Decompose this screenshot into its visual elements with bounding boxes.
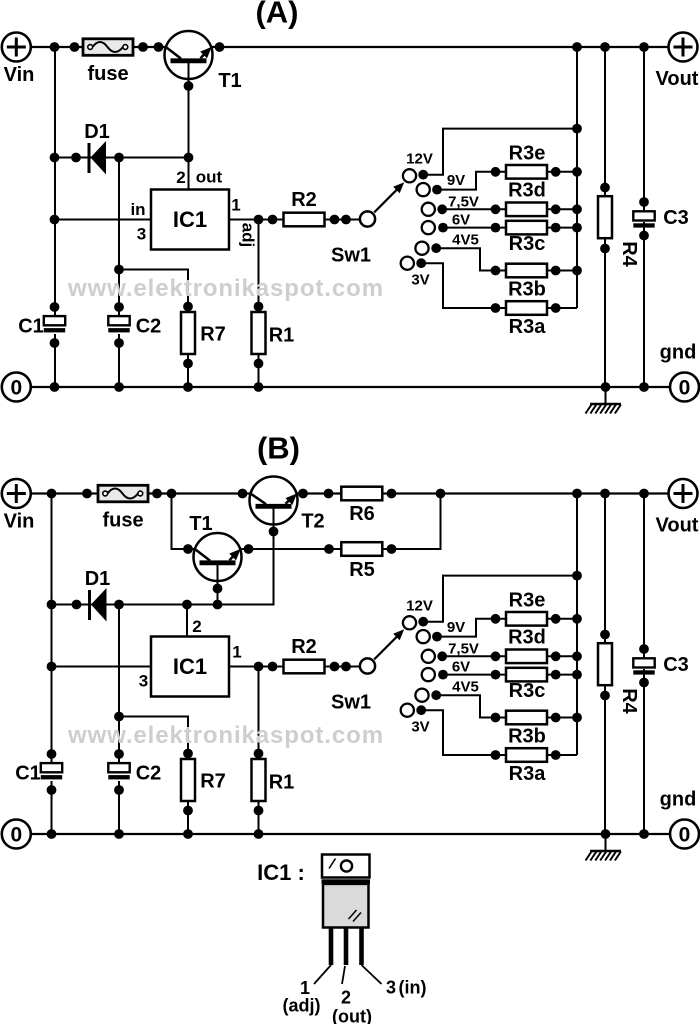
wire B left rail: [51, 494, 53, 765]
junction dot C2 B top: [114, 749, 124, 759]
contact 3V: [401, 257, 414, 270]
junction dot R4 top: [600, 183, 610, 193]
contact 12V: [403, 169, 416, 182]
resistor R1: [252, 312, 266, 354]
svg-text:12V: 12V: [406, 151, 433, 168]
svg-text:2: 2: [192, 617, 201, 636]
svg-text:6V: 6V: [452, 212, 470, 229]
junction dot bottom C3 B: [639, 829, 649, 839]
svg-text:3: 3: [139, 672, 148, 691]
svg-text:Sw1: Sw1: [331, 245, 371, 267]
junction dot B after fuse 1: [152, 489, 162, 499]
svg-text:gnd: gnd: [660, 342, 697, 364]
svg-text:7,5V: 7,5V: [448, 641, 479, 658]
wire bottom rail B: [31, 833, 669, 835]
diode D1: [88, 143, 91, 173]
svg-text:T1: T1: [218, 70, 241, 92]
junction dot R3e B bus: [572, 614, 582, 624]
svg-text:C2: C2: [136, 763, 162, 785]
junction dot C2 bottom: [114, 338, 124, 348]
switch Sw1 B wiper arrow: [374, 634, 399, 659]
capacitor C3 B: [633, 658, 654, 667]
wire 12V to bus: [423, 129, 577, 175]
wire in row B: [52, 666, 152, 668]
contact 6V: [422, 221, 435, 234]
junction dot rail-left rail: [50, 42, 60, 52]
junction dot B top of R3 bus: [572, 489, 582, 499]
svg-text:C3: C3: [663, 207, 689, 229]
junction dot bottom C2: [114, 382, 124, 392]
junction dot R3d left: [491, 204, 501, 214]
wire C3 B column: [643, 494, 645, 662]
svg-text:(out): (out): [332, 1007, 372, 1024]
svg-text:(B): (B): [257, 431, 300, 466]
svg-text:IC1: IC1: [173, 654, 207, 679]
terminal Vout B (+): [669, 479, 698, 508]
svg-text:1: 1: [232, 643, 241, 662]
wire R3c row: [496, 227, 578, 229]
wire R3b B row: [496, 717, 578, 719]
resistor R3a: [506, 301, 547, 315]
terminal Vout (+): [669, 33, 698, 62]
junction dot R7 B top: [183, 749, 193, 759]
junction dot R1 top: [254, 302, 264, 312]
resistor R3b: [506, 264, 547, 278]
svg-text:C1: C1: [18, 316, 44, 338]
resistor R6: [341, 487, 382, 501]
svg-text:0: 0: [10, 824, 22, 847]
svg-text:0: 0: [679, 377, 691, 400]
junction dot bottom C2 B: [114, 829, 124, 839]
svg-text:(A): (A): [255, 0, 298, 30]
junction dot D1 B row left: [47, 600, 57, 610]
IC1 pin leg 3: [359, 928, 364, 965]
junction dot R1 B bottom: [254, 806, 264, 816]
wire 4V5 to R3b: [436, 248, 495, 270]
resistor R3b B: [506, 711, 547, 725]
wire R3d row: [496, 208, 578, 210]
junction dot T1 B base: [213, 584, 223, 594]
junction dot B before T1: [183, 544, 193, 554]
IC1 pin leg 2: [344, 928, 349, 965]
junction dot R3d right: [551, 204, 561, 214]
wire R5 right corner: [382, 494, 441, 550]
svg-text:R4: R4: [618, 688, 640, 714]
junction dot R3d B right: [551, 651, 561, 661]
junction dot B after R6: [387, 489, 397, 499]
junction dot adj branch B: [254, 662, 264, 672]
transistor T1 B: [194, 533, 242, 581]
junction dot C1 B bottom: [47, 785, 57, 795]
junction dot B after T2 1: [298, 489, 308, 499]
terminal 0 right B: [670, 820, 699, 849]
contact 7,5V: [422, 203, 435, 216]
svg-text:7,5V: 7,5V: [448, 194, 479, 211]
junction dot R3a B right: [551, 750, 561, 760]
svg-text:Vout: Vout: [656, 515, 699, 537]
wire ground stub B: [605, 834, 607, 851]
junction dot R7 B bottom: [183, 806, 193, 816]
svg-text:R2: R2: [291, 189, 317, 211]
wire T1 B base down: [217, 563, 219, 605]
transistor T2 B: [250, 477, 298, 525]
junction dot 12V: [418, 170, 428, 180]
junction dot D1 B pin2 branch: [182, 600, 192, 610]
junction dot C3 B bottom: [639, 678, 649, 688]
capacitor C1 B: [41, 763, 62, 772]
resistor R3d: [506, 203, 547, 217]
junction dot R7 bottom: [183, 359, 193, 369]
svg-text:2: 2: [341, 988, 351, 1008]
transistor T1: [165, 31, 213, 79]
junction dot R4 B bottom: [600, 691, 610, 701]
terminal 0 left: [2, 373, 31, 402]
svg-text:0: 0: [679, 824, 691, 847]
junction dot R1 B top: [254, 749, 264, 759]
wire T1 base down: [188, 61, 190, 190]
capacitor C2 B: [108, 763, 129, 772]
resistor R2 B: [284, 660, 325, 674]
wire top rail right (T1 to Vout): [211, 46, 669, 48]
svg-text:gnd: gnd: [660, 789, 697, 811]
wire C3 column: [643, 47, 645, 214]
junction dot R3b B left: [491, 713, 501, 723]
junction dot B before fuse: [82, 489, 92, 499]
wire adj B down to R1: [258, 667, 260, 835]
svg-text:R2: R2: [291, 636, 317, 658]
junction dot after T1: [215, 42, 225, 52]
junction dot R7 top: [183, 302, 193, 312]
svg-text:R4: R4: [618, 241, 640, 267]
resistor R4: [598, 196, 612, 238]
svg-text:R7: R7: [200, 771, 226, 793]
contact 9V: [417, 183, 430, 196]
svg-text:Vin: Vin: [4, 511, 35, 533]
wire fuse branch down to T1: [172, 494, 195, 550]
junction dot 6V B: [438, 670, 448, 680]
switch Sw1 common contact: [360, 211, 375, 226]
junction dot B top of C3: [639, 489, 649, 499]
wire R4 column: [604, 47, 606, 387]
contact 3V B: [401, 704, 414, 717]
svg-text:9V: 9V: [447, 619, 465, 636]
resistor R4 B: [598, 643, 612, 685]
junction dot R3b right: [551, 266, 561, 276]
capacitor C2: [108, 316, 129, 325]
junction dot C1 B top: [47, 749, 57, 759]
ground B: [590, 850, 621, 853]
svg-text:www.elektronikaspot.com: www.elektronikaspot.com: [67, 275, 384, 302]
svg-text:adj: adj: [239, 223, 258, 248]
wire D1 row: [55, 157, 189, 159]
op-amp regulator IC1 (B): [151, 637, 229, 697]
svg-text:R3d: R3d: [508, 627, 546, 649]
svg-text:R3b: R3b: [508, 726, 546, 748]
wire C2 B junction row: [119, 717, 188, 835]
svg-text:2: 2: [176, 168, 185, 187]
resistor R2: [284, 213, 325, 227]
wire R3 bus vertical B: [576, 494, 578, 756]
resistor R3c: [506, 221, 547, 235]
junction dot D1 row right: [184, 153, 194, 163]
junction dot R3b B right: [551, 713, 561, 723]
svg-text:T2: T2: [301, 511, 324, 533]
junction dot after fuse 1: [138, 42, 148, 52]
junction dot D1 row left: [50, 153, 60, 163]
svg-text:R3a: R3a: [509, 316, 547, 338]
junction dot R3b left: [491, 266, 501, 276]
svg-text:1: 1: [231, 196, 240, 215]
switch Sw1 wiper arrow: [374, 187, 399, 212]
resistor R3d B: [506, 650, 547, 664]
svg-text:R3a: R3a: [509, 763, 547, 785]
IC1 package tab mark: [329, 859, 336, 869]
IC1 package hole: [341, 860, 352, 871]
junction dot C2 top branch: [114, 265, 124, 275]
wire 9V B to R3e: [437, 619, 496, 637]
svg-text:R3e: R3e: [509, 143, 546, 165]
leader pin 2: [342, 966, 345, 984]
junction dot R3c left: [491, 223, 501, 233]
svg-text:R3d: R3d: [508, 180, 546, 202]
junction dot R4 B top: [600, 630, 610, 640]
terminal 0 right: [670, 373, 699, 402]
svg-text:3: 3: [386, 978, 396, 998]
wire pin1 B to R2: [229, 666, 284, 668]
junction dot bottom gnd: [601, 382, 611, 392]
svg-text:3V: 3V: [411, 719, 429, 736]
contact 6V B: [422, 668, 435, 681]
svg-text:0: 0: [10, 377, 22, 400]
junction dot bottom R7 B: [183, 829, 193, 839]
junction dot R3e B left: [491, 614, 501, 624]
capacitor C1: [44, 316, 65, 325]
junction dot 12V bus: [572, 124, 582, 134]
junction dot 4V5: [431, 243, 441, 253]
wire D1 B to C2 column: [118, 605, 120, 765]
junction dot 12V B: [418, 617, 428, 627]
junction dot C1 bottom: [50, 338, 60, 348]
wire 9V to R3e: [437, 172, 496, 190]
leader pin 3: [362, 965, 382, 984]
junction dot C3 B top: [639, 644, 649, 654]
wire R3a B row: [496, 754, 578, 756]
svg-text:R3c: R3c: [509, 680, 546, 702]
wire ground stub: [605, 387, 607, 404]
junction dot C2 B top branch: [114, 712, 124, 722]
junction dot D1 cathode side: [114, 153, 124, 163]
svg-text:out: out: [196, 168, 223, 187]
junction dot bottom gnd B: [601, 829, 611, 839]
capacitor C3: [633, 211, 654, 220]
svg-text:6V: 6V: [452, 659, 470, 676]
fuse F1: [83, 39, 133, 56]
junction dot B rail-left rail: [47, 489, 57, 499]
junction dot R3a right: [551, 303, 561, 313]
wire T2 B base down: [218, 506, 274, 604]
junction dot R3c B bus: [572, 670, 582, 680]
junction dot R3c bus: [572, 223, 582, 233]
op-amp regulator IC1 (A): [151, 190, 229, 250]
resistor R5: [341, 542, 382, 556]
junction dot B R6 corner: [436, 489, 446, 499]
junction dot top of R4: [600, 42, 610, 52]
junction dot R2 B right 2: [341, 662, 351, 672]
svg-text:(adj): (adj): [283, 996, 321, 1016]
junction dot pin1 wire: [268, 215, 278, 225]
switch Sw1 B common contact: [360, 658, 375, 673]
wire 4V5 B to R3b: [436, 695, 495, 717]
svg-text:C1: C1: [15, 763, 41, 785]
wire 12V B to bus: [423, 576, 577, 622]
junction dot R5 left: [324, 544, 334, 554]
wire R3a row: [496, 307, 578, 309]
wire B top rail (Vin to T2): [31, 492, 251, 494]
junction dot D1 B cathode side: [114, 600, 124, 610]
junction dot in row at left rail: [50, 215, 60, 225]
svg-text:R1: R1: [269, 772, 295, 794]
wire 3V B to R3a: [421, 710, 495, 755]
svg-text:Vin: Vin: [4, 64, 35, 86]
junction dot R3d bus: [572, 204, 582, 214]
resistor R3c B: [506, 668, 547, 682]
wire 7,5V to R3d: [442, 208, 495, 210]
junction dot R3b bus: [572, 266, 582, 276]
resistor R7 B: [181, 759, 195, 801]
IC1 package separator: [322, 879, 371, 884]
junction dot before fuse: [70, 42, 80, 52]
junction dot bottom R7: [183, 382, 193, 392]
svg-text:IC1: IC1: [173, 207, 207, 232]
wire pin1 to R2: [229, 219, 284, 221]
junction dot pin1 wire B: [268, 662, 278, 672]
junction dot B after T2 2: [324, 489, 334, 499]
resistor R3a B: [506, 748, 547, 762]
wire T1 B emitter to R5 row: [240, 548, 342, 550]
junction dot R3b B bus: [572, 713, 582, 723]
junction dot R3e B right: [551, 614, 561, 624]
IC1 package body: [323, 884, 369, 928]
junction dot bottom R1: [254, 382, 264, 392]
junction dot 12V B bus: [572, 571, 582, 581]
junction dot R3c B left: [491, 670, 501, 680]
resistor R7: [181, 312, 195, 354]
wire R4 B column: [604, 494, 606, 835]
junction dot R5 right: [387, 544, 397, 554]
junction dot 4V5 B: [431, 690, 441, 700]
svg-text:T1: T1: [189, 513, 212, 535]
svg-text:www.elektronikaspot.com: www.elektronikaspot.com: [67, 722, 384, 749]
wire B top rail (T2 to R6): [296, 492, 342, 494]
wire adj down to R1: [258, 220, 260, 388]
terminal Vin B (+): [2, 479, 31, 508]
junction dot top of C3: [639, 42, 649, 52]
IC1 package body marks: [349, 910, 357, 919]
svg-text:C2: C2: [136, 316, 162, 338]
contact 7,5V B: [422, 650, 435, 663]
junction dot B top of R4: [600, 489, 610, 499]
svg-text:R3c: R3c: [509, 233, 546, 255]
junction dot R3a B left: [491, 750, 501, 760]
junction dot T1 base: [184, 81, 194, 91]
leader pin 1: [314, 965, 331, 984]
svg-text:3V: 3V: [411, 272, 429, 289]
svg-text:R3b: R3b: [508, 279, 546, 301]
junction dot T2 B base: [269, 527, 279, 537]
contact 9V B: [417, 630, 430, 643]
wire in row: [55, 219, 151, 221]
wire C2 junction row: [119, 270, 188, 388]
junction dot bottom C1 B: [47, 829, 57, 839]
wire 3V to R3a: [421, 263, 495, 308]
wire top rail left (Vin to T1): [31, 46, 167, 48]
resistor R3e: [506, 165, 547, 179]
junction dot R3d B bus: [572, 651, 582, 661]
junction dot R3e bus: [572, 167, 582, 177]
contact 4V5 B: [415, 689, 428, 702]
junction dot R3d B left: [491, 651, 501, 661]
IC1 package tab: [322, 855, 370, 878]
junction dot R3c B right: [551, 670, 561, 680]
junction dot in row B at left rail: [47, 662, 57, 672]
junction dot B after T1: [244, 544, 254, 554]
svg-text:Sw1: Sw1: [331, 692, 371, 714]
junction dot top of R3 bus: [572, 42, 582, 52]
wire bottom rail: [31, 386, 669, 388]
junction dot bottom R1 B: [254, 829, 264, 839]
wire R3 bus vertical: [576, 47, 578, 308]
junction dot D1 anode side: [71, 153, 81, 163]
svg-text:(in): (in): [399, 978, 427, 998]
svg-text:D1: D1: [84, 121, 110, 143]
junction dot R2 right 2: [341, 215, 351, 225]
junction dot R3e left: [491, 167, 501, 177]
fuse F1 B: [98, 485, 148, 502]
resistor R3e B: [506, 612, 547, 626]
junction dot R3e right: [551, 167, 561, 177]
junction dot 9V: [432, 185, 442, 195]
junction dot 7,5V: [437, 204, 447, 214]
wire B top rail (R6 to Vout): [382, 492, 669, 494]
junction dot C1 top: [50, 302, 60, 312]
svg-text:fuse: fuse: [102, 510, 143, 532]
junction dot C2 top: [114, 302, 124, 312]
junction dot adj branch: [254, 215, 264, 225]
svg-text:4V5: 4V5: [452, 679, 479, 696]
svg-text:12V: 12V: [406, 598, 433, 615]
wire pin2 B: [186, 605, 188, 637]
svg-text:R3e: R3e: [509, 590, 546, 612]
wire R2 to Sw1: [325, 219, 361, 221]
junction dot 3V: [416, 258, 426, 268]
terminal Vin (+): [2, 33, 31, 62]
svg-text:R6: R6: [349, 503, 375, 525]
svg-text:3: 3: [137, 225, 146, 244]
svg-text:R5: R5: [349, 559, 375, 581]
junction dot B before T2: [238, 489, 248, 499]
junction dot R4 bottom: [600, 244, 610, 254]
svg-text:fuse: fuse: [87, 63, 128, 85]
wire left rail: [54, 47, 56, 317]
junction dot bottom C3: [639, 382, 649, 392]
wire 6V to R3c: [443, 227, 496, 229]
wire 6V B to R3c: [443, 674, 496, 676]
junction dot B after fuse 2 (branch): [167, 489, 177, 499]
svg-text:R7: R7: [200, 324, 226, 346]
IC1 pin leg 1: [329, 928, 334, 965]
wire D1 to C2 column: [118, 158, 120, 318]
resistor R1 B: [252, 759, 266, 801]
